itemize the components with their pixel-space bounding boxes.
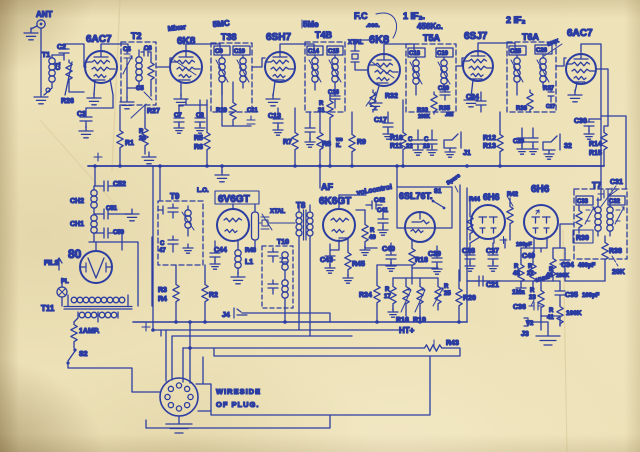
transformer T1 [41, 52, 55, 95]
jack 32 [543, 134, 572, 159]
wire T6A to V6 grid, 100K note [544, 38, 566, 66]
wire osc grid [355, 40, 370, 70]
IF transformer T2 [121, 31, 160, 118]
pilot lamp PL [44, 258, 69, 306]
svg-text:R42: R42 [507, 192, 519, 198]
svg-text:C18: C18 [409, 51, 421, 57]
rectifier tube 80 [68, 242, 112, 283]
ground (V6) [568, 83, 582, 102]
svg-text:F.C: F.C [354, 11, 368, 21]
jack J1 [444, 132, 471, 157]
ground (plug) [166, 416, 192, 433]
ground (V2 cathode) [174, 82, 188, 106]
plus sign [94, 153, 102, 161]
resistor R43 [422, 340, 459, 351]
svg-text:32: 32 [564, 143, 572, 150]
label R44 [467, 197, 481, 240]
resistor R24 [359, 265, 380, 322]
potentiometer R25 [433, 278, 451, 310]
svg-text:XTAL: XTAL [348, 40, 364, 46]
capacitor C50 [95, 228, 125, 242]
svg-text:T11: T11 [41, 304, 55, 313]
vacuum tube 6SH7 V3 [265, 32, 295, 82]
resistor R32 [366, 90, 398, 112]
svg-text:C39: C39 [428, 251, 441, 258]
main B+ bus row1 [88, 165, 604, 167]
resistor R5 R6 [194, 100, 210, 166]
IF transformer T6A [507, 32, 556, 112]
svg-text:1AMP.: 1AMP. [79, 328, 100, 335]
wire grid to V1 [52, 44, 86, 67]
resistor R46 [245, 205, 259, 254]
resistor R31 [318, 95, 333, 166]
capacitor C3 [77, 108, 92, 128]
svg-text:R10: R10 [390, 135, 403, 142]
svg-text:1 IF₂.: 1 IF₂. [403, 11, 425, 21]
resistor R3 R4 [158, 265, 179, 322]
wire T2 to V2 grid [156, 58, 172, 67]
svg-text:22: 22 [527, 271, 534, 277]
wire V5 plate to T6A [478, 43, 515, 51]
svg-text:C32: C32 [609, 199, 621, 205]
svg-text:R12: R12 [483, 135, 496, 142]
wire C21 [467, 276, 500, 289]
svg-text:C25: C25 [510, 49, 522, 55]
svg-text:WIRESIDE: WIRESIDE [216, 387, 261, 396]
resistor R1 [117, 105, 134, 166]
svg-text:20K: 20K [612, 269, 625, 276]
jack J3 [521, 316, 541, 338]
vacuum tube 6H6 V11 [524, 205, 558, 252]
resistor R9 [349, 112, 366, 166]
svg-text:AF: AF [321, 182, 333, 192]
svg-text:40: 40 [546, 273, 553, 279]
svg-text:R6: R6 [194, 144, 203, 151]
capacitor C22 [406, 130, 423, 155]
svg-text:R24: R24 [359, 292, 372, 299]
wires below mixer [179, 99, 207, 105]
svg-text:T8: T8 [296, 201, 306, 210]
coil L1 [235, 241, 253, 274]
svg-text:R: R [385, 287, 390, 293]
svg-text:C10: C10 [234, 49, 246, 55]
svg-text:J4: J4 [222, 312, 230, 319]
wire V6 plate loop right [581, 44, 601, 166]
capacitor C39 [428, 246, 442, 274]
svg-text:1Ma: 1Ma [512, 289, 525, 296]
potentiometer R19 [413, 278, 426, 324]
svg-text:T2: T2 [131, 31, 142, 41]
svg-text:400pF: 400pF [578, 263, 596, 269]
ground (antenna) [24, 28, 38, 40]
svg-text:2 IF₂: 2 IF₂ [506, 15, 526, 25]
label WIRESIDE OF PLUG [216, 387, 261, 409]
svg-text:R37: R37 [543, 86, 555, 92]
capacitor C29 [513, 128, 538, 154]
svg-text:R13: R13 [483, 143, 496, 150]
capacitor C34 [560, 254, 596, 270]
svg-text:100K: 100K [418, 114, 430, 120]
svg-text:L.O.: L.O. [197, 188, 209, 194]
svg-text:T1: T1 [42, 52, 50, 59]
svg-text:23: 23 [529, 295, 536, 301]
ground (C51) [125, 209, 139, 221]
svg-text:R8: R8 [322, 141, 331, 148]
svg-text:R11: R11 [390, 143, 403, 150]
fuse 1AMP [71, 318, 100, 344]
capacitor C31 [600, 179, 623, 208]
svg-text:T5A: T5A [423, 33, 441, 43]
resistor R41 [547, 302, 582, 326]
svg-text:48: 48 [513, 271, 520, 277]
svg-text:R: R [514, 264, 519, 270]
svg-text:R36: R36 [516, 106, 528, 112]
plus mark [500, 237, 507, 244]
crystal XTAL 2 [259, 209, 295, 230]
svg-text:R: R [528, 264, 533, 270]
power transformer T11 [41, 295, 132, 322]
svg-text:R19: R19 [413, 317, 426, 324]
svg-text:C20: C20 [438, 86, 450, 92]
transformer T9 [158, 192, 203, 265]
capacitor C42 [366, 198, 386, 209]
resistor R7 [283, 108, 298, 166]
svg-text:6SH7: 6SH7 [266, 32, 291, 43]
resistor R26 [61, 58, 84, 105]
vacuum tube 6H6 V10 [470, 205, 505, 243]
capacitor C2 [56, 44, 69, 70]
capacitor C36 [513, 300, 541, 311]
capacitor C44 [210, 241, 227, 269]
IF transformer T38 [211, 32, 258, 126]
svg-text:S1: S1 [434, 189, 442, 195]
svg-text:6SL76T.: 6SL76T. [399, 191, 433, 201]
svg-text:T38: T38 [221, 32, 237, 42]
resistor R45 [343, 238, 365, 283]
vacuum tube 6K6GT V8 [323, 195, 366, 241]
ground (T2) [120, 97, 134, 109]
svg-text:49: 49 [369, 235, 376, 241]
wire V2 plate up to T38 [186, 44, 220, 52]
svg-text:C9: C9 [215, 49, 223, 55]
svg-text:C38: C38 [462, 248, 475, 255]
svg-text:R43: R43 [446, 340, 459, 347]
svg-text:25: 25 [444, 291, 451, 297]
svg-text:CH1: CH1 [70, 221, 84, 228]
ground (J3 area) [536, 322, 560, 345]
capacitor C43 [320, 244, 335, 273]
wire T5A to V5 [456, 58, 464, 66]
svg-text:47: 47 [159, 248, 166, 254]
svg-text:100K: 100K [566, 310, 582, 317]
resistor R22 [527, 252, 550, 288]
svg-text:6H6: 6H6 [483, 192, 500, 202]
potentiometer R16 [396, 278, 411, 324]
svg-text:C27: C27 [546, 104, 555, 110]
svg-text:R: R [319, 101, 324, 107]
HT bus [133, 321, 467, 323]
junction dots bus [93, 164, 502, 168]
svg-text:R26: R26 [61, 98, 74, 105]
label 1 IF2 456Kc [403, 11, 443, 31]
svg-text:C15: C15 [328, 49, 340, 55]
ground (L1) [231, 272, 245, 284]
choke CH2 [70, 186, 97, 214]
resistor R42 [507, 192, 519, 240]
plug side rect [196, 357, 211, 411]
wire V4 plate to T5A [384, 44, 414, 54]
svg-text:R32: R32 [385, 93, 398, 100]
svg-text:.osc.: .osc. [366, 23, 380, 29]
svg-text:S2: S2 [79, 351, 88, 358]
wires detector chain [467, 239, 565, 326]
svg-text:C2: C2 [57, 44, 66, 51]
vacuum tube 6AC7 V1 [85, 34, 117, 83]
resistor R18 [409, 240, 428, 278]
svg-text:80: 80 [68, 247, 82, 261]
capacitor C30 [574, 118, 601, 139]
svg-text:C11: C11 [247, 108, 258, 114]
svg-text:T4B: T4B [315, 30, 333, 40]
resistor R23 1Ma [512, 282, 544, 316]
lower loop wires [146, 357, 430, 428]
svg-text:CH2: CH2 [70, 198, 84, 205]
svg-text:31: 31 [318, 108, 325, 114]
svg-text:6V6GT: 6V6GT [218, 194, 250, 205]
switch S1 [432, 189, 446, 209]
svg-text:C52: C52 [113, 181, 126, 188]
svg-text:5MC: 5MC [212, 19, 230, 29]
svg-text:Mixer: Mixer [167, 24, 186, 33]
svg-text:C: C [408, 137, 413, 143]
capacitor C13 [268, 108, 283, 135]
resistor R2 [202, 265, 218, 322]
svg-text:C21: C21 [486, 282, 499, 289]
capacitor C51 [95, 206, 126, 219]
svg-text:28: 28 [139, 136, 146, 142]
svg-text:R7: R7 [283, 139, 292, 146]
svg-text:ANT: ANT [36, 10, 53, 19]
svg-text:C40: C40 [382, 246, 395, 253]
capacitor C23 [423, 130, 437, 155]
capacitor C52 [95, 181, 126, 191]
svg-text:.5M: .5M [445, 112, 453, 118]
vacuum tube 6K8 V4 osc [368, 34, 400, 86]
svg-text:J1: J1 [463, 150, 471, 157]
capacitor C8 [195, 105, 205, 133]
jack J4 [222, 308, 330, 322]
ground below bus T38 [215, 166, 229, 182]
svg-text:100pF: 100pF [582, 293, 600, 299]
capacitor C40 [382, 243, 396, 271]
ground (V1 cathode) [87, 80, 101, 105]
svg-text:C: C [160, 241, 165, 247]
svg-text:5Me: 5Me [303, 20, 319, 29]
svg-text:C14: C14 [308, 49, 320, 55]
ground (V5) [464, 80, 478, 107]
svg-text:HT+: HT+ [399, 326, 415, 335]
svg-text:L1: L1 [245, 259, 253, 266]
resistor R20 [456, 270, 476, 322]
svg-text:R45: R45 [352, 261, 365, 268]
resistor R14 R15 [589, 126, 608, 166]
resistor R38 [602, 236, 625, 281]
svg-text:100K: 100K [556, 273, 569, 279]
svg-text:J3: J3 [521, 331, 529, 338]
svg-text:R20: R20 [463, 295, 476, 302]
IF transformer T4B [305, 30, 345, 112]
paper crease light vertical [563, 230, 567, 452]
transformer T8 [296, 201, 313, 336]
vertical feeds row1 to row2 [153, 166, 467, 330]
IF transformer T5A [406, 33, 456, 120]
capacitor C49 [521, 248, 535, 260]
crystal XTAL [348, 40, 364, 66]
label box 6V6GT [215, 191, 259, 205]
ground (V3 cathode) [266, 81, 280, 106]
svg-text:C24: C24 [466, 94, 479, 101]
svg-text:R3: R3 [158, 287, 167, 294]
capacitor C24 [466, 92, 486, 112]
wire antenna down [40, 28, 42, 57]
svg-text:6K6GT: 6K6GT [319, 196, 351, 207]
vacuum tube 6AC7 V6 [566, 28, 596, 84]
svg-text:T6A: T6A [522, 32, 540, 42]
capacitor C37 [486, 243, 499, 271]
capacitor C38 [462, 243, 475, 271]
svg-text:R4: R4 [158, 296, 167, 303]
long wires to plug [153, 322, 400, 383]
svg-text:6H6: 6H6 [531, 184, 550, 195]
svg-text:Spare: Spare [446, 173, 462, 187]
svg-text:C31: C31 [610, 179, 623, 186]
svg-text:T9: T9 [170, 192, 180, 201]
svg-text:C34: C34 [561, 262, 574, 269]
transformer T10 [262, 239, 293, 322]
svg-text:R44: R44 [469, 197, 481, 203]
box 6SL7GT [397, 187, 452, 228]
wires 6K6 plate [330, 210, 438, 284]
capacitor C41 [377, 208, 389, 235]
antenna ANT [31, 10, 53, 29]
svg-text:R5: R5 [194, 135, 203, 142]
svg-text:456Kc.: 456Kc. [417, 22, 443, 31]
ground (T1) [34, 92, 48, 104]
svg-text:R14: R14 [589, 141, 602, 148]
switch S2 [66, 344, 87, 365]
resistor R49 [360, 210, 376, 255]
svg-text:R: R [370, 228, 375, 234]
svg-text:23: 23 [423, 144, 430, 150]
resistor R28 [139, 105, 148, 154]
svg-text:R: R [530, 288, 535, 294]
svg-text:K.: K. [336, 143, 342, 149]
plug body [160, 378, 198, 416]
vacuum tube 6SL7GT V9 [405, 212, 435, 242]
vacuum tube 6K8 V2 mixer [170, 36, 202, 83]
svg-text:C1: C1 [56, 62, 62, 70]
svg-text:C26: C26 [536, 48, 548, 54]
wire V3 plate to T4B [280, 44, 314, 52]
boxed resistor R39 [573, 230, 593, 243]
svg-text:R: R [444, 284, 449, 290]
wire V6 out right [596, 69, 626, 189]
svg-text:T10: T10 [277, 239, 289, 246]
ground (R28) [142, 152, 156, 164]
resistor R8 [317, 112, 343, 166]
svg-text:C5: C5 [136, 86, 144, 92]
svg-text:R2: R2 [209, 292, 218, 299]
transformer T7 [574, 181, 627, 259]
svg-text:OF PLUG.: OF PLUG. [216, 400, 259, 409]
capacitor C17 [374, 112, 393, 139]
capacitor C7 [174, 105, 184, 133]
label F.C. osc [354, 11, 397, 38]
rectifier wiring box [89, 237, 152, 306]
resistor R40 [546, 248, 569, 281]
wire T38 to V3 [252, 58, 265, 67]
resistor R10 R11 [390, 100, 406, 166]
svg-text:R38: R38 [609, 248, 622, 255]
capacitor ground T4B [305, 112, 315, 147]
svg-text:C19: C19 [437, 51, 449, 57]
svg-text:R16: R16 [396, 317, 409, 324]
svg-text:C36: C36 [513, 304, 526, 311]
svg-text:6AC7: 6AC7 [567, 28, 593, 39]
vacuum tube 6SJ7 V5 [463, 31, 493, 81]
svg-text:C35: C35 [565, 292, 578, 299]
wire screen drop [86, 79, 113, 108]
svg-text:R30: R30 [576, 235, 589, 242]
choke CH1 [70, 215, 97, 242]
svg-text:C33: C33 [577, 199, 589, 205]
wires right column row2 [560, 166, 605, 281]
wire S2 to plug [68, 365, 160, 392]
svg-text:R9: R9 [357, 139, 366, 146]
svg-text:100pF: 100pF [516, 242, 533, 248]
svg-text:R: R [549, 308, 554, 314]
resistor R12 R13 [483, 112, 503, 166]
ground (C3) [79, 126, 93, 138]
resistor R17 [384, 278, 398, 317]
vacuum tube 6V6GT V7 [217, 204, 249, 241]
svg-text:R: R [139, 129, 144, 135]
svg-text:R18: R18 [415, 257, 428, 264]
svg-text:22: 22 [406, 144, 413, 150]
svg-text:R1: R1 [125, 140, 134, 147]
svg-text:17: 17 [384, 294, 391, 300]
svg-text:XTAL: XTAL [270, 209, 286, 215]
resistor R48 [513, 260, 526, 293]
svg-text:R46: R46 [245, 248, 257, 254]
svg-text:R15: R15 [589, 150, 602, 157]
svg-text:R27: R27 [147, 108, 160, 115]
svg-text:6SJ7: 6SJ7 [464, 31, 488, 42]
capacitor C35 [555, 281, 600, 302]
wire bus down left [94, 166, 96, 186]
wire plate V1 to T2 [101, 44, 128, 52]
ground (V4) [368, 86, 382, 110]
